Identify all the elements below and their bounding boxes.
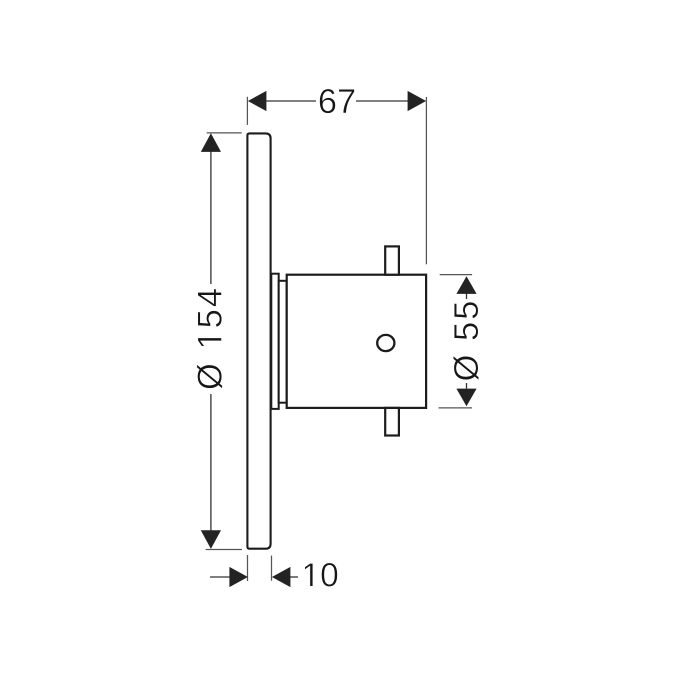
arrowhead 55 top: [456, 276, 476, 294]
arrowhead 67 right: [408, 91, 427, 111]
extension line left for dim 67: [246, 97, 248, 125]
label dia 154: [197, 289, 223, 389]
extension line top for dim 55: [440, 274, 472, 276]
thermostat body (55 dia): [287, 275, 426, 408]
dimension line 154 (lower segment): [210, 394, 212, 532]
arrowhead 10 left (points right): [229, 567, 248, 587]
label dia 55: [453, 302, 479, 380]
dimension line 55 (lower segment): [466, 383, 468, 389]
top stop screw tab: [385, 246, 399, 274]
bottom stop screw tab: [385, 408, 399, 436]
extension line right for dim 10: [271, 556, 273, 581]
extension line bottom for dim 55: [439, 407, 473, 409]
dimension leader 10 right: [290, 576, 299, 578]
dimension line 67 (right segment): [356, 100, 409, 102]
arrowhead 154 top: [201, 133, 221, 152]
extension line right for dim 67: [425, 97, 427, 264]
label 67: [320, 89, 355, 113]
dimension leader 10 left: [210, 576, 231, 578]
extension line bottom for dim 154: [206, 549, 242, 551]
dimension line 67 (left segment): [266, 100, 317, 102]
label 10: [305, 563, 338, 587]
dimension line 55 (upper segment): [466, 294, 468, 300]
sleeve inner step: [279, 281, 287, 403]
dimension line 154 (upper segment): [210, 151, 212, 284]
arrowhead 154 bottom: [201, 530, 221, 549]
extension line top for dim 154: [207, 132, 242, 134]
index dot on body: [377, 335, 394, 351]
arrowhead 10 right (points left): [272, 567, 291, 587]
arrowhead 55 bottom: [456, 389, 476, 407]
extension line left for dim 10: [247, 555, 249, 581]
arrowhead 67 left: [248, 91, 267, 111]
escutcheon plate (side view, 154 dia x 10 thick): [247, 133, 270, 548]
flange sleeve ring (outer step): [271, 274, 278, 409]
